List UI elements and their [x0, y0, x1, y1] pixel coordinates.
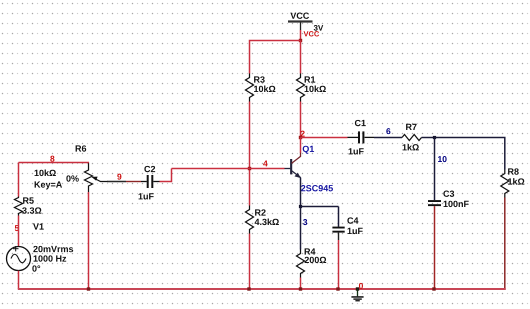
label R2 — [255, 209, 266, 215]
wire R5 to V1 — [18, 216, 20, 247]
label R5 — [23, 197, 34, 203]
value label R6 Key=A — [35, 181, 62, 189]
net label 10 — [438, 156, 447, 162]
net label VCC — [304, 31, 320, 36]
wire C4 bottom to rail — [338, 233, 340, 240]
value label 2SC945 — [301, 185, 333, 191]
net label 5 — [15, 225, 19, 231]
wire node 10 down to C3 — [434, 138, 436, 201]
wire collector pin — [300, 138, 302, 154]
power symbol VCC — [288, 13, 313, 30]
value label R7 1k — [403, 144, 419, 151]
net label 4 — [263, 161, 268, 167]
value label V1 1000 Hz — [34, 255, 67, 261]
resistor R3 — [246, 74, 254, 102]
potentiometer R6 wiper — [91, 177, 107, 182]
value label C2 1uF — [139, 193, 154, 199]
capacitor C2 — [141, 175, 160, 188]
label R6 — [76, 145, 87, 151]
label Q1 — [303, 146, 314, 154]
wire R7 to node 10 — [422, 137, 435, 139]
wire VCC stub — [300, 30, 302, 41]
junction rail at ground — [356, 287, 359, 290]
junction node 3 — [299, 205, 302, 208]
wire C1 to R7 — [374, 137, 402, 139]
label C4 — [347, 217, 358, 223]
capacitor C1 — [348, 131, 375, 143]
wire left rail top — [18, 163, 20, 197]
value label V1 20mVrms — [33, 246, 73, 252]
value label R6 0% — [66, 175, 78, 181]
ground symbol — [351, 289, 363, 301]
label C2 — [144, 166, 155, 172]
label R4 — [305, 248, 316, 254]
label R1 — [305, 76, 316, 82]
value label R8 1k — [508, 178, 524, 185]
wire left rail to R6 — [19, 162, 90, 164]
resistor R2 — [246, 206, 254, 234]
wire wiper to C2 — [107, 181, 126, 183]
value label C3 100nF — [444, 201, 469, 207]
label C3 — [443, 191, 454, 197]
wire node 3 down to R4 — [300, 207, 302, 250]
junction VCC node — [299, 39, 302, 42]
resistor R7 — [402, 135, 421, 141]
wire R2 bottom to rail — [249, 234, 251, 290]
junction node 2 — [299, 136, 302, 139]
wire R6 bottom to rail — [88, 192, 90, 289]
potentiometer R6 — [85, 163, 93, 193]
wire C4 top — [338, 207, 340, 227]
wire emitter to node 3 — [300, 178, 302, 207]
value label 3V — [314, 25, 324, 31]
value label R3 10k — [254, 85, 275, 92]
wire ground rail — [18, 288, 506, 290]
resistor R4 — [297, 250, 305, 278]
net label 6 — [386, 128, 390, 134]
wire node 4 down to R2 — [249, 169, 251, 206]
source V1 — [7, 246, 31, 271]
junction node 10 — [433, 136, 436, 139]
wire C2 riser — [160, 169, 172, 182]
transistor Q1 — [290, 153, 301, 178]
value label R1 10k — [305, 85, 326, 92]
junction rail at C4 — [336, 287, 339, 290]
wire node 10 to right rail — [435, 138, 505, 170]
resistor R5 — [15, 197, 23, 216]
net label 3 — [303, 219, 307, 225]
value label C1 1uF — [349, 148, 364, 154]
resistor R1 — [297, 74, 305, 102]
wire node 3 to C4 — [301, 206, 339, 208]
value label R2 4.3k — [255, 218, 279, 225]
wire R1 bottom to node 2 — [300, 102, 302, 138]
junction rail at R6 — [87, 287, 90, 290]
net label 2 — [301, 131, 305, 137]
label R7 — [406, 124, 417, 130]
wire base node 4 — [172, 168, 285, 170]
junction node 4 — [248, 167, 251, 170]
value label R5 3.3 — [22, 207, 41, 213]
junction rail at R2 — [247, 287, 250, 290]
junction rail at C3 — [432, 287, 435, 290]
value label R6 10k — [35, 169, 56, 176]
wire R8 bottom to rail — [504, 198, 506, 290]
net label 8 — [50, 156, 54, 162]
wire C3 bottom to rail — [434, 206, 436, 289]
wire VCC node to R1 top — [300, 41, 302, 74]
label R3 — [254, 76, 265, 82]
capacitor C3 — [428, 200, 441, 206]
wire R3 bottom to node 4 — [249, 102, 251, 169]
net label 0 — [359, 283, 363, 289]
wire node 2 to C1 — [301, 137, 348, 139]
wire base pin — [285, 168, 291, 170]
junction rail at R4 — [299, 287, 302, 290]
label C1 — [355, 120, 366, 126]
value label R4 200 — [305, 257, 327, 263]
wire VCC node to R3 top — [250, 41, 301, 74]
wire V1 bottom to rail — [18, 271, 20, 289]
label R8 — [508, 168, 519, 174]
net label 9 — [117, 174, 121, 180]
value label C4 1uF — [348, 228, 363, 234]
value label V1 0deg — [32, 265, 40, 271]
capacitor C4 — [332, 227, 344, 233]
resistor R8 — [501, 170, 509, 198]
label V1 — [33, 223, 44, 229]
wire R4 bottom to rail — [300, 278, 302, 290]
